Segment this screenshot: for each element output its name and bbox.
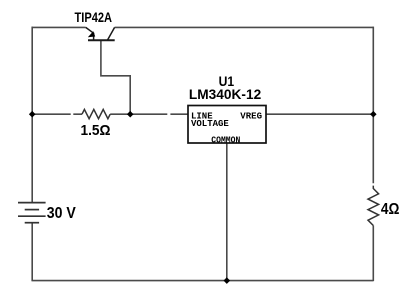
wire top-left horizontal (left rail to Q1 emitter) [32, 26, 86, 28]
wire middle left (node A to 1.5-ohm resistor) [32, 113, 82, 115]
wire right rail lower (4-ohm resistor to bottom) [372, 226, 374, 282]
wire top-right horizontal (Q1 collector to right rail) [115, 26, 374, 28]
transistor Q1 TIP42A (PNP) [86, 27, 115, 40]
node C junction (right rail / middle wire) [370, 111, 377, 118]
svg-text:COMMON: COMMON [211, 136, 240, 146]
node A junction (left rail / middle wire) [29, 111, 36, 118]
svg-text:30 V: 30 V [47, 205, 77, 222]
resistor R1 1.5-ohm (horizontal zigzag) [82, 109, 110, 118]
svg-text:LM340K-12: LM340K-12 [189, 86, 262, 102]
svg-text:VOLTAGE: VOLTAGE [191, 119, 229, 129]
wire Q1 base lead (base bar down, jog right, down to node B) [101, 40, 130, 114]
op-amp U1 regulator box LM340K-12 [188, 106, 266, 144]
wire middle center (1.5-ohm resistor to U1 LINE pin, through node B) [110, 113, 188, 115]
wire left rail lower (battery - to bottom) [31, 223, 33, 281]
svg-text:TIP42A: TIP42A [75, 9, 113, 25]
svg-text:VREG: VREG [240, 112, 262, 122]
wire left rail upper (top to battery +) [31, 27, 33, 203]
node D junction (COMMON pin / bottom rail) [224, 277, 231, 284]
wire U1 COMMON pin down to bottom rail node D [226, 143, 228, 281]
wire middle right (U1 VREG pin to node C) [266, 113, 373, 115]
svg-text:1.5Ω: 1.5Ω [81, 122, 111, 139]
wire bottom rail [32, 280, 374, 282]
resistor R2 4-ohm (vertical zigzag) [368, 186, 379, 226]
svg-text:4Ω: 4Ω [381, 201, 400, 218]
wire right rail upper (top to 4-ohm resistor) [372, 27, 374, 184]
battery V1 30V [18, 203, 46, 223]
node B junction (base lead / middle wire) [127, 111, 134, 118]
